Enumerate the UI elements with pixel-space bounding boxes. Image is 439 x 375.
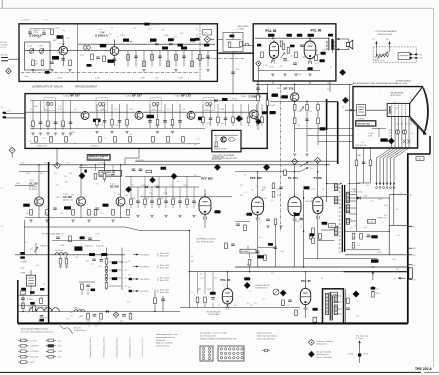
svg-text:Druckknopfe u. Tasten von ob: Druckknopfe u. Tasten von oben xyxy=(200,332,227,335)
svg-text:[: [ xyxy=(158,277,159,281)
diode mixer D1 xyxy=(155,43,158,46)
svg-text:470: 470 xyxy=(43,318,46,320)
video decoupling bus thick xyxy=(326,99,328,130)
svg-text:4.7: 4.7 xyxy=(280,66,283,68)
wire ladder rung 2 xyxy=(109,277,122,279)
wire video bus h xyxy=(270,101,327,103)
label FOCUS xyxy=(380,138,387,141)
wire sync col 173 xyxy=(172,177,174,209)
svg-text:4,7k: 4,7k xyxy=(54,40,57,42)
svg-text:4,7k: 4,7k xyxy=(148,28,151,30)
test point line b xyxy=(292,159,298,165)
IF amplifier box xyxy=(25,94,267,149)
capacitor IF C23 xyxy=(118,120,122,122)
svg-text:4.3: 4.3 xyxy=(413,255,415,257)
capacitor IF C34 xyxy=(178,120,182,122)
lower-left border xyxy=(17,280,19,323)
wire preamp bus 2 xyxy=(19,170,49,172)
video bus thick B xyxy=(337,102,339,164)
svg-text:1.2k: 1.2k xyxy=(80,55,83,57)
socket pins xyxy=(376,187,378,189)
wire mains x xyxy=(18,305,49,307)
svg-text:4.5: 4.5 xyxy=(410,195,413,197)
svg-text:0.47: 0.47 xyxy=(44,163,48,165)
legend arrow xyxy=(359,341,361,351)
tuner small box xyxy=(203,30,212,36)
ground mixer 2 xyxy=(174,69,177,71)
svg-text:4,7k: 4,7k xyxy=(250,305,253,307)
capacitor mid C1 xyxy=(274,246,278,248)
svg-text:220 p 2kV: 220 p 2kV xyxy=(30,357,39,359)
svg-text:1.848: 1.848 xyxy=(141,185,145,187)
capacitor sync C2 xyxy=(139,168,143,170)
winding hatches xyxy=(347,192,350,194)
svg-text:L.7: L.7 xyxy=(84,196,86,198)
resistor tuner R2 xyxy=(41,60,44,66)
svg-text:100: 100 xyxy=(287,61,290,63)
resistor right R2 xyxy=(310,234,313,240)
svg-text:1.848: 1.848 xyxy=(99,106,104,108)
wire speaker link xyxy=(348,39,350,49)
svg-text:0.7u: 0.7u xyxy=(376,289,379,291)
svg-text:1M2: 1M2 xyxy=(194,144,197,146)
svg-text:6k8: 6k8 xyxy=(70,312,73,314)
tuner module box xyxy=(19,24,217,82)
svg-text:BF 167: BF 167 xyxy=(132,94,142,98)
second choke xyxy=(74,310,85,312)
test point sync a xyxy=(126,187,132,193)
wire sound box xyxy=(226,39,241,41)
svg-text:2.2: 2.2 xyxy=(244,215,246,217)
svg-text:4,7 u: 4,7 u xyxy=(58,340,62,342)
right edge ticks xyxy=(408,226,413,228)
svg-text:L.494: L.494 xyxy=(417,159,421,161)
ground audio 3 xyxy=(294,73,297,75)
ground frame 1 xyxy=(59,265,62,267)
wire mid vertical xyxy=(188,230,190,308)
svg-text:0,1u: 0,1u xyxy=(234,305,237,307)
svg-text:1.77: 1.77 xyxy=(169,185,172,187)
capacitor IF C43 xyxy=(224,117,228,119)
svg-text:0.1u: 0.1u xyxy=(259,237,262,239)
tube V3 PCF802 xyxy=(199,197,211,215)
svg-text:Bereich: Bereich xyxy=(74,327,80,330)
resistor video R7 xyxy=(266,100,269,106)
wire preamp link xyxy=(95,165,97,171)
test point sync b xyxy=(150,177,156,183)
ground line 1 xyxy=(266,225,269,227)
svg-text:0,1u: 0,1u xyxy=(69,134,72,136)
wire RF bus xyxy=(25,50,218,52)
transistor video BF178 xyxy=(291,93,299,101)
resistor mid R1 xyxy=(312,228,315,234)
svg-text:1.848: 1.848 xyxy=(100,109,104,111)
wire v5 xyxy=(294,165,296,197)
voltage table row 4 xyxy=(129,290,133,292)
capacitor sync C15 xyxy=(164,200,168,202)
svg-text:L.12: L.12 xyxy=(100,213,103,215)
svg-text:T.12: T.12 xyxy=(277,88,280,90)
tone dashed box xyxy=(373,47,416,62)
wire sync bus 3 xyxy=(140,196,232,198)
wire frame drops xyxy=(93,255,95,257)
ground preamp 73 xyxy=(71,219,74,221)
test point below AGC xyxy=(214,164,220,170)
svg-text:2.2M: 2.2M xyxy=(163,193,167,195)
wire video col 3 xyxy=(317,102,319,146)
svg-text:2.236 4.7k: 2.236 4.7k xyxy=(90,146,98,148)
label plate xyxy=(40,288,44,291)
label plate xyxy=(322,222,328,225)
svg-text:4.6: 4.6 xyxy=(413,280,415,282)
svg-text:2.2: 2.2 xyxy=(103,138,105,140)
svg-text:PUNKT: PUNKT xyxy=(73,308,79,310)
resistor mains R7 xyxy=(81,284,84,290)
label plate xyxy=(308,34,315,37)
svg-text:2.2: 2.2 xyxy=(38,30,40,32)
svg-text:470: 470 xyxy=(195,29,198,31)
label freq lin xyxy=(367,220,375,224)
label plate xyxy=(304,186,310,189)
svg-text:1.848: 1.848 xyxy=(60,125,64,127)
svg-text:punkte im Gerat: punkte im Gerat xyxy=(156,345,170,348)
resistor tuner R1 xyxy=(32,60,35,66)
label plate xyxy=(103,204,109,207)
ground audio 4 xyxy=(308,73,311,75)
wire speaker feed 1 xyxy=(336,38,348,40)
svg-text:U.3 190V =: U.3 190V = xyxy=(140,266,151,268)
transistor AC125 b xyxy=(77,197,86,206)
svg-text:L.70: L.70 xyxy=(124,262,127,264)
arrow boost 2 xyxy=(300,167,309,172)
svg-text:Schalterstellung u. Bild: Schalterstellung u. Bild xyxy=(115,339,118,358)
svg-text:AC 128: AC 128 xyxy=(1,41,7,44)
coil IF L1 xyxy=(46,102,49,105)
label plate xyxy=(272,94,279,97)
svg-text:U.2 220V =: U.2 220V = xyxy=(140,254,151,256)
svg-text:PCF 802: PCF 802 xyxy=(250,176,262,180)
svg-text:4.7k: 4.7k xyxy=(36,265,39,267)
wire osc bus xyxy=(78,43,215,45)
svg-text:0,47: 0,47 xyxy=(78,316,81,318)
svg-text:7: 7 xyxy=(350,205,351,207)
svg-text:Schalterstellung u. Bild: Schalterstellung u. Bild xyxy=(89,339,92,358)
svg-text:L.1234: L.1234 xyxy=(348,354,353,356)
label plate xyxy=(64,206,71,209)
svg-text:470: 470 xyxy=(30,249,33,251)
test point chassis xyxy=(256,61,261,66)
svg-text:0,47: 0,47 xyxy=(350,227,353,229)
ground IF b 157.5 xyxy=(156,131,159,133)
resistor IF R10 xyxy=(32,121,35,127)
svg-text:12p: 12p xyxy=(395,108,398,110)
label plate xyxy=(210,292,216,295)
svg-text:L.40: L.40 xyxy=(397,235,400,237)
resistor IF R12 xyxy=(47,121,50,127)
svg-text:0.1u: 0.1u xyxy=(45,317,48,319)
wire sync right v xyxy=(303,190,305,267)
resistor preamp Rf xyxy=(112,210,115,216)
svg-text:PCL 86: PCL 86 xyxy=(311,28,322,32)
resistor IF low R57 xyxy=(167,137,170,143)
wire sync col 166 xyxy=(165,187,167,208)
svg-text:0,1u: 0,1u xyxy=(254,303,257,305)
tuner chassis line xyxy=(21,72,199,74)
svg-text:Messpunkt bei Ab-: Messpunkt bei Ab- xyxy=(317,351,332,354)
svg-text:[: [ xyxy=(158,253,159,257)
tone zigzag resistor xyxy=(376,54,390,58)
wire preamp v3 xyxy=(120,165,122,197)
svg-text:2.236: 2.236 xyxy=(311,189,315,191)
ground tuner 2 xyxy=(50,69,53,71)
svg-text:L.40: L.40 xyxy=(129,41,132,43)
svg-text:1.77: 1.77 xyxy=(240,185,243,187)
label box small xyxy=(329,224,336,228)
svg-text:2.2: 2.2 xyxy=(381,222,383,224)
svg-text:TRS 220 A: TRS 220 A xyxy=(415,367,432,371)
label plate xyxy=(93,119,101,122)
wire IF col 40.5 xyxy=(40,101,42,113)
terminal tag f1 xyxy=(20,252,25,254)
label box REGELSPANNUNG xyxy=(87,154,110,160)
label plate lad0 xyxy=(112,261,117,264)
svg-text:L.505: L.505 xyxy=(280,251,284,253)
svg-text:2.236: 2.236 xyxy=(206,123,210,125)
label plate xyxy=(168,38,174,41)
label box 2 xyxy=(99,171,122,177)
label plate xyxy=(123,39,129,42)
EHT rail top xyxy=(407,153,430,155)
label plate xyxy=(290,45,295,48)
svg-text:1.848: 1.848 xyxy=(206,106,211,108)
wire IF col 97 xyxy=(96,104,98,128)
svg-text:anderung. Konstruktions-: anderung. Konstruktions- xyxy=(257,335,278,338)
resistor sync R0 xyxy=(130,199,133,205)
resistor IF R31 xyxy=(156,120,159,126)
video bus link xyxy=(327,101,338,103)
svg-text:anderung vorbehalten: anderung vorbehalten xyxy=(257,337,275,340)
label L-coupling xyxy=(230,35,235,38)
resistor frame R1 xyxy=(59,259,62,265)
svg-text:100: 100 xyxy=(394,102,397,104)
wire mains h xyxy=(18,295,49,297)
label plate xyxy=(262,111,267,114)
capacitor audio C1 xyxy=(283,58,287,60)
wire frame top parts xyxy=(52,240,100,242)
wire v6 xyxy=(317,163,319,197)
wire speaker feed 2 xyxy=(336,48,348,50)
svg-text:470: 470 xyxy=(354,191,357,193)
wire right stub xyxy=(349,84,351,202)
label plate xyxy=(162,47,168,50)
svg-text:12p: 12p xyxy=(260,203,263,205)
svg-text:L.40: L.40 xyxy=(388,135,391,137)
svg-text:G1: G1 xyxy=(396,124,398,126)
resistor sync Rh xyxy=(146,170,152,173)
wire video left col xyxy=(257,81,259,130)
svg-text:Punkte Kanal: Punkte Kanal xyxy=(74,329,86,332)
ground IF 4 xyxy=(61,132,64,134)
svg-text:T.9: T.9 xyxy=(244,175,246,177)
label plate xyxy=(181,47,187,50)
resistor IF low R58 xyxy=(182,137,185,143)
wire preamp input xyxy=(15,185,35,187)
resistor tuner R3 xyxy=(69,60,72,66)
ground frame 2 xyxy=(65,265,68,267)
svg-text:2.2: 2.2 xyxy=(330,66,332,68)
label box HOCHSPANNUNG xyxy=(356,121,376,127)
resistor mixer R5 xyxy=(167,61,170,67)
resistor vdr xyxy=(372,292,375,298)
resistor IF R14 xyxy=(62,121,65,127)
svg-text:1.848: 1.848 xyxy=(178,78,183,80)
svg-text:2.236: 2.236 xyxy=(392,259,396,261)
wire antenna xyxy=(8,58,19,60)
svg-text:12p: 12p xyxy=(256,186,259,188)
svg-text:2.236: 2.236 xyxy=(20,268,24,270)
svg-text:17: 17 xyxy=(394,278,396,280)
resistor sync R4 xyxy=(158,199,161,205)
tone pot arrow 1 xyxy=(375,41,377,47)
svg-text:2.236: 2.236 xyxy=(145,198,149,200)
resistor preamp Rd xyxy=(88,210,91,216)
capacitor mains C2 xyxy=(93,314,97,316)
wire IF col 48 xyxy=(47,101,49,113)
wire mains sub xyxy=(79,281,95,283)
svg-text:1.848: 1.848 xyxy=(220,109,224,111)
svg-text:1.2: 1.2 xyxy=(284,61,286,63)
svg-text:12p: 12p xyxy=(74,143,77,145)
svg-text:11: 11 xyxy=(350,219,352,221)
resistor tuner R10 xyxy=(51,29,54,35)
resistor sync R6 xyxy=(172,199,175,205)
svg-text:22k: 22k xyxy=(126,195,129,197)
resistor right R1 xyxy=(319,234,322,240)
svg-text:FLEER CONNECTION VIEWS FROM: FLEER CONNECTION VIEWS FROM TOP xyxy=(200,338,237,340)
wire IF col 241 xyxy=(240,104,242,126)
wire AGC xyxy=(214,134,238,136)
wire video col 2 xyxy=(306,102,308,153)
svg-text:1.236: 1.236 xyxy=(140,78,145,80)
wire IF bus 1 xyxy=(25,111,81,113)
wire sound out xyxy=(243,44,253,46)
svg-text:ZEILENFREQ. 15625Hz: ZEILENFREQ. 15625Hz xyxy=(196,238,216,240)
transistor AC125 a xyxy=(35,197,44,206)
svg-text:1,2M: 1,2M xyxy=(276,189,280,191)
flyback winding 3 xyxy=(346,218,349,224)
svg-text:RUNDF. PRUFG.: RUNDF. PRUFG. xyxy=(214,149,228,151)
svg-text:a: a xyxy=(55,311,56,313)
transistor T5 BF173 xyxy=(187,111,195,119)
svg-text:1,2 W: 1,2 W xyxy=(58,351,63,353)
capacitor hor C1 xyxy=(231,243,235,245)
svg-text:4.8: 4.8 xyxy=(413,248,415,250)
board boundary dash-dot xyxy=(279,84,281,232)
capacitor psu C1 xyxy=(346,307,350,309)
svg-text:BC 218: BC 218 xyxy=(110,185,119,189)
svg-text:0.7: 0.7 xyxy=(319,310,321,312)
shield bridge wire xyxy=(217,52,253,54)
svg-text:T.1208: T.1208 xyxy=(240,96,247,98)
ground sync 166 xyxy=(164,215,167,217)
transformer secondary 2 xyxy=(334,305,337,315)
label plate xyxy=(89,253,95,256)
svg-text:2.236: 2.236 xyxy=(366,237,370,239)
wire IF col 165 xyxy=(164,104,166,128)
resistor IF low R55 xyxy=(129,137,132,143)
svg-text:22k: 22k xyxy=(40,298,43,300)
flyback taps xyxy=(339,183,341,185)
wire IF col 119.5 xyxy=(119,104,121,128)
svg-text:0,47: 0,47 xyxy=(66,318,69,320)
coil IF L3 xyxy=(152,102,155,105)
wire sync bus xyxy=(125,176,201,178)
capacitor vert C2 xyxy=(288,299,292,301)
svg-text:PL.2: PL.2 xyxy=(310,162,314,164)
resistor mains R5 xyxy=(154,298,157,304)
svg-text:S 2003 B: S 2003 B xyxy=(249,94,262,98)
label plate xyxy=(281,95,288,98)
capacitor under audio xyxy=(256,87,260,89)
svg-text:0,1u: 0,1u xyxy=(40,173,43,175)
diode demod xyxy=(214,99,217,102)
resistor mains R2 xyxy=(87,314,90,320)
svg-text:2.1: 2.1 xyxy=(1,188,3,190)
capacitor degauss C1 xyxy=(40,315,44,317)
wire video to CRT 2 xyxy=(307,135,353,137)
IF transformer box 96 xyxy=(96,98,108,111)
svg-text:2.2: 2.2 xyxy=(113,193,115,195)
capacitor tuner C3 xyxy=(50,61,54,63)
IF transformer box 203 xyxy=(203,98,215,111)
svg-text:1.848: 1.848 xyxy=(269,67,273,69)
svg-text:0.234: 0.234 xyxy=(120,35,125,37)
capacitor frame C5 xyxy=(88,237,92,239)
wire deflection v xyxy=(388,195,390,255)
wire T1 collector xyxy=(62,39,64,46)
svg-text:0,47: 0,47 xyxy=(127,301,130,303)
capacitor mains C1 xyxy=(21,297,25,299)
antenna terminal xyxy=(1,57,8,59)
resistor mixer R9 xyxy=(199,55,202,61)
wire mains riser xyxy=(154,290,156,312)
svg-text:1.77: 1.77 xyxy=(287,305,290,307)
label plate xyxy=(215,210,221,213)
ground video 2 xyxy=(305,153,308,155)
wire vert bus xyxy=(189,271,343,273)
ground audio 1 xyxy=(271,73,274,75)
terminal focus xyxy=(350,109,353,112)
svg-text:5,5 MHz: 5,5 MHz xyxy=(237,29,244,31)
legend symbol row 1 xyxy=(21,339,27,342)
label plate xyxy=(294,213,300,216)
capacitor frame C2 xyxy=(100,259,104,261)
test point audio xyxy=(340,70,346,76)
resistor IF low R50 xyxy=(35,137,38,143)
wire sound down 2 xyxy=(257,66,259,81)
flyback winding 1 xyxy=(346,192,349,202)
svg-text:2.236: 2.236 xyxy=(45,125,49,127)
tone arrow out 2 xyxy=(412,57,416,59)
wire yoke 3 xyxy=(370,148,372,183)
svg-text:1.77: 1.77 xyxy=(131,185,134,187)
svg-text:PL.3: PL.3 xyxy=(310,168,314,170)
svg-text:0,1u: 0,1u xyxy=(43,138,46,140)
coil tuner L1 xyxy=(83,46,87,50)
arrow boost 1 xyxy=(300,162,309,167)
svg-text:L.504 5R5: L.504 5R5 xyxy=(305,201,313,203)
svg-text:86.2: 86.2 xyxy=(327,89,330,91)
